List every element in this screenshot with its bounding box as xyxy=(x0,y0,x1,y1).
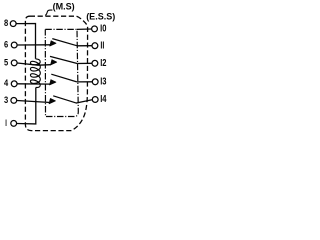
svg-text:II: II xyxy=(100,40,104,51)
pin 6 circle xyxy=(11,42,17,48)
pin 8 circle xyxy=(10,21,16,27)
contact arm 3 arrow xyxy=(50,80,56,85)
svg-text:(M.S): (M.S) xyxy=(53,2,75,12)
wire box corner to pin10 xyxy=(77,28,91,30)
svg-text:I: I xyxy=(5,118,7,129)
pin 12 circle xyxy=(92,60,98,66)
contact arm 1 arrow xyxy=(50,41,56,46)
wire pin5 to contact arm 2 xyxy=(17,63,51,65)
contact arm 2 blade xyxy=(50,56,77,63)
inner dash-dot switch box (M.S) xyxy=(45,29,78,116)
svg-text:I0: I0 xyxy=(100,24,107,35)
wire pin1 to coil feed xyxy=(17,88,36,124)
pin 5 circle xyxy=(11,60,17,66)
wire contact2 to pin12 xyxy=(77,62,92,64)
leader line to (M.S) xyxy=(45,10,52,15)
svg-text:I2: I2 xyxy=(100,58,107,69)
pin 3 circle xyxy=(11,98,17,104)
wire pin4 to contact arm 3 xyxy=(17,83,50,85)
wire pin8 to coil feed xyxy=(16,24,35,59)
pin 11 circle xyxy=(92,43,98,49)
pin 4 circle xyxy=(11,81,17,87)
svg-text:I3: I3 xyxy=(100,77,107,88)
contact arm 4 blade xyxy=(53,96,77,103)
wire pin6 to contact arm 1 xyxy=(17,44,50,46)
wire pin3 to contact arm 4 xyxy=(17,101,51,103)
outer dashed enclosure box xyxy=(25,16,87,130)
pin 1 circle xyxy=(11,121,17,127)
pin 13 circle xyxy=(92,79,98,85)
wire contact4 to pin14 xyxy=(76,100,92,103)
svg-text:6: 6 xyxy=(4,39,8,50)
wire contact3 to pin13 xyxy=(77,81,92,83)
svg-text:I4: I4 xyxy=(100,94,107,105)
svg-text:5: 5 xyxy=(4,57,9,68)
contact arm 4 arrow xyxy=(49,99,55,104)
pin 14 circle xyxy=(92,97,98,103)
svg-text:8: 8 xyxy=(4,18,8,29)
relay coil xyxy=(30,59,40,88)
pin 10 circle xyxy=(92,26,98,32)
svg-text:4: 4 xyxy=(4,78,9,89)
contact arm 3 blade xyxy=(51,74,77,82)
wire contact1 to pin11 xyxy=(77,45,92,47)
contact arm 1 blade xyxy=(52,39,77,46)
svg-text:3: 3 xyxy=(4,95,8,106)
contact arm 2 arrow xyxy=(51,60,57,65)
svg-text:(E.S.S): (E.S.S) xyxy=(86,12,115,22)
